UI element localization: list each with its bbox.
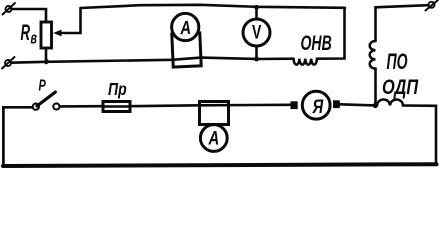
wire: ODP to bottom-right corner xyxy=(403,106,436,165)
svg-text:Я: Я xyxy=(312,95,324,118)
brush right xyxy=(333,100,340,108)
ammeter A1 (excitation circuit) xyxy=(171,13,199,41)
svg-text:Р: Р xyxy=(39,76,47,94)
motor armature Ya xyxy=(291,91,340,119)
fuse Pr xyxy=(103,102,130,112)
wire: top rail of excitation circuit xyxy=(81,5,346,8)
resistor Rv (field rheostat box) xyxy=(41,22,52,48)
switch P (knife switch, open) xyxy=(33,92,60,110)
terminal T3 (top-right supply clamp) xyxy=(426,0,439,11)
wire: switch to fuse xyxy=(60,105,103,108)
junction top rail / voltmeter xyxy=(254,5,259,10)
svg-text:ОДП: ОДП xyxy=(382,75,419,98)
junction rheostat/lower rail xyxy=(44,59,49,64)
wire: rheostat bottom lead xyxy=(45,48,48,63)
inductor ONV (separately-excited field winding) xyxy=(294,59,318,65)
inductor ODP (commutating-pole winding) xyxy=(377,100,403,106)
wire: through A2 box to armature brush xyxy=(200,104,291,107)
junction armature line / PO branch xyxy=(373,103,378,108)
svg-text:A: A xyxy=(208,128,220,149)
voltmeter V xyxy=(243,19,270,46)
rheostat wiper arrow xyxy=(53,8,80,36)
svg-text:V: V xyxy=(252,21,262,43)
voltmeter riser top xyxy=(255,7,258,19)
label ODP xyxy=(382,75,419,98)
wire: fuse to ammeter A2 box xyxy=(130,104,200,107)
terminal T1 (top-left supply clamp) xyxy=(3,3,16,15)
wire: armature right brush to PO junction xyxy=(340,104,376,105)
svg-text:ПО: ПО xyxy=(387,49,409,74)
inductor PO (series field winding, vertical) xyxy=(370,41,376,69)
svg-text:A: A xyxy=(179,17,191,39)
label ONV xyxy=(301,31,332,54)
svg-text:R: R xyxy=(21,21,31,45)
svg-text:ОНВ: ОНВ xyxy=(301,31,332,54)
wire: left side of armature loop xyxy=(3,107,32,165)
voltmeter riser bottom xyxy=(255,48,258,60)
label PO xyxy=(387,49,409,74)
wire: T3 to right branch corner xyxy=(376,5,429,41)
label P xyxy=(39,76,47,94)
svg-text:в: в xyxy=(31,28,38,47)
svg-text:Пр: Пр xyxy=(108,79,127,99)
junction lower rail / voltmeter xyxy=(254,57,259,62)
brush left xyxy=(291,101,298,109)
ammeter A2 (armature circuit) xyxy=(200,125,227,152)
wire: PO down to armature node xyxy=(374,69,377,106)
label Rv xyxy=(21,21,38,48)
ammeter A2 shunt box xyxy=(200,102,229,125)
wire: lower rail (T2 across to ONV coil) xyxy=(11,58,294,63)
wire: bottom rail xyxy=(3,164,437,166)
label Pr xyxy=(108,79,127,99)
ammeter A1 shunt box xyxy=(172,33,201,67)
wire: ONV coil to corner riser xyxy=(317,8,345,59)
wire: T1 to rheostat top xyxy=(12,9,47,22)
terminal T2 (bottom-left supply clamp) xyxy=(2,57,15,69)
